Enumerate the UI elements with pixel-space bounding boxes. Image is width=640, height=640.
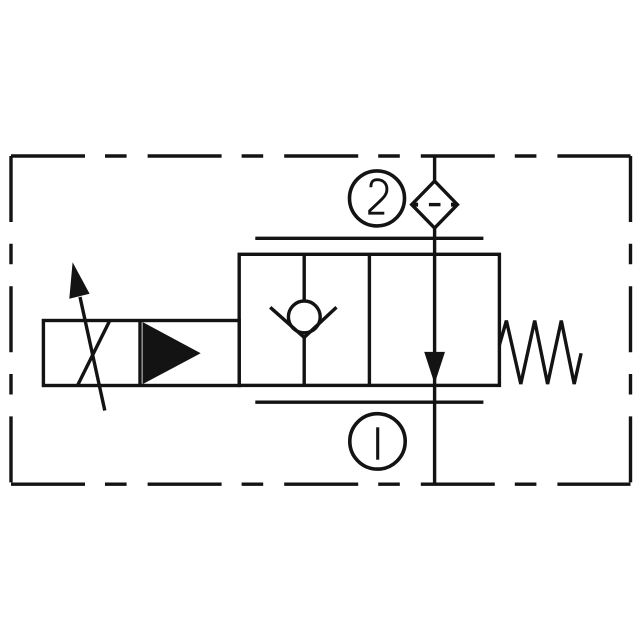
proportional solenoid box: [43, 321, 239, 386]
solenoid coil diagonal: [78, 321, 110, 386]
solenoid energize triangle (filled, pointing right): [143, 322, 201, 384]
pilot line upper: [255, 237, 483, 240]
pilot line lower: [255, 401, 483, 404]
node: port 2 label circle: [350, 171, 405, 226]
node: port 1 label circle: [350, 414, 405, 469]
wire: port 2 vertical line (top border to compensator): [433, 156, 436, 181]
proportional adjustment arrow shaft: [80, 297, 105, 411]
wire: main vertical line through valve to bottom border: [433, 228, 436, 484]
flow arrow (right square, pointing down): [424, 352, 445, 384]
proportional adjustment arrowhead: [69, 262, 89, 298]
check valve (circle on seat, left square): [270, 254, 336, 385]
spring (right side return spring): [499, 321, 581, 384]
enclosure dashed boundary (cartridge envelope): [11, 156, 631, 484]
valve body (two-position envelope): [239, 254, 499, 385]
pressure compensator orifice (diamond with minus): [412, 181, 458, 228]
